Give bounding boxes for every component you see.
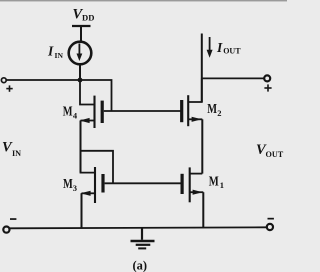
svg-text:I: I — [216, 40, 223, 55]
svg-text:OUT: OUT — [266, 150, 284, 159]
M1 drain wire — [190, 173, 203, 175]
terminal left top — [1, 78, 6, 83]
svg-text:4: 4 — [73, 110, 78, 120]
transistor M4 — [80, 80, 103, 173]
svg-text:2: 2 — [217, 108, 221, 118]
terminal right top — [264, 75, 270, 81]
svg-text:IN: IN — [12, 149, 21, 158]
M1 channel line — [189, 167, 191, 202]
M2 drain wire — [188, 78, 202, 102]
svg-text:1: 1 — [220, 180, 224, 190]
current source arrow — [77, 44, 83, 62]
transistor M3 — [81, 151, 114, 229]
svg-text:I: I — [47, 43, 54, 58]
terminal left bottom — [3, 227, 9, 233]
M2 channel line — [187, 95, 189, 126]
scan artifact: top edge band — [0, 0, 287, 1]
wire gate line M3-M1 — [105, 182, 181, 184]
wire IOUT stub — [201, 34, 203, 103]
transistor M2 — [182, 78, 203, 173]
M3 gate-drain tie wire — [81, 151, 114, 184]
svg-text:M: M — [63, 176, 73, 191]
M4 channel line — [93, 96, 95, 128]
wire current source to input node — [79, 65, 81, 81]
current source I_IN circle — [69, 42, 92, 65]
ground — [131, 228, 155, 248]
transistor M1 — [182, 167, 203, 228]
svg-text:OUT: OUT — [223, 47, 241, 56]
polarity + left — [6, 85, 12, 91]
M3 channel line — [94, 167, 96, 203]
M3 drain wire — [81, 151, 96, 173]
M2 source wire with arrow — [188, 118, 202, 120]
wire bottom rail — [9, 227, 268, 228]
M4 source wire with arrow — [81, 120, 95, 122]
svg-text:M: M — [63, 104, 73, 119]
M1 gate bar — [181, 174, 184, 194]
power symbol VDD bar — [72, 25, 91, 27]
svg-text:M: M — [209, 174, 219, 189]
wire gate line M4-M2 — [104, 110, 181, 112]
polarity - left — [10, 218, 16, 220]
M3 gate bar — [101, 174, 104, 193]
node A (input node dot) — [78, 78, 83, 83]
M1 source wire with arrow — [190, 191, 204, 193]
svg-text:IN: IN — [55, 51, 64, 60]
svg-text:(a): (a) — [133, 259, 148, 272]
wire left input horizontal — [6, 79, 80, 81]
M4 drain wire — [80, 80, 95, 105]
arrow IOUT — [207, 37, 213, 58]
svg-text:M: M — [207, 101, 217, 116]
polarity - right — [268, 218, 274, 220]
svg-text:DD: DD — [82, 12, 94, 22]
wire right output horizontal — [202, 77, 264, 79]
wire VDD bar to current source — [80, 27, 82, 42]
svg-text:3: 3 — [73, 183, 77, 193]
polarity + right — [264, 84, 271, 91]
terminal right bottom — [267, 224, 273, 230]
wire node to gate branch — [80, 80, 112, 111]
M2 gate bar — [180, 100, 183, 122]
M3 source wire with arrow — [82, 192, 96, 194]
M4 gate bar — [101, 101, 104, 123]
